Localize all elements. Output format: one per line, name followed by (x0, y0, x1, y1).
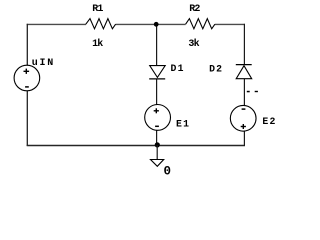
resistor R1 (86, 4, 116, 50)
wire middle branch upper (node to D1) (156, 24, 158, 66)
diode D1 (149, 63, 184, 79)
dash marks right of D2-E2 wire (247, 91, 250, 93)
source E1 (145, 105, 190, 131)
wire top rail middle segment (116, 23, 186, 25)
wire top rail left segment (27, 23, 86, 25)
svg-text:1k: 1k (92, 38, 103, 50)
svg-text:R1: R1 (92, 4, 103, 15)
svg-text:E2: E2 (262, 116, 276, 127)
ground (151, 145, 172, 178)
svg-text:0: 0 (164, 164, 172, 176)
wire right branch D2-to-E2 (243, 79, 245, 106)
wire top rail right segment (215, 23, 245, 25)
svg-text:D2: D2 (209, 63, 223, 74)
wire right branch upper (rail to D2) (243, 24, 245, 65)
node junction top (R1/R2/D1) (154, 22, 159, 27)
source uIN (14, 58, 55, 91)
diode D2 (209, 63, 252, 78)
svg-text:E1: E1 (176, 118, 190, 129)
svg-text:3k: 3k (188, 38, 199, 50)
node junction bottom (E1/ground/rail) (155, 142, 160, 147)
svg-text:uIN: uIN (32, 58, 55, 69)
svg-text:R2: R2 (189, 4, 200, 15)
wire middle branch D1-to-E1 (156, 79, 158, 105)
wire middle branch E1-to-rail (156, 130, 158, 145)
source E2 (230, 105, 276, 131)
wire right branch E2-to-rail (243, 131, 245, 146)
wire left branch lower (26, 91, 28, 146)
wire bottom rail (27, 145, 245, 147)
svg-text:D1: D1 (171, 63, 185, 74)
resistor R2 (186, 4, 215, 50)
wire left branch upper (26, 24, 28, 66)
